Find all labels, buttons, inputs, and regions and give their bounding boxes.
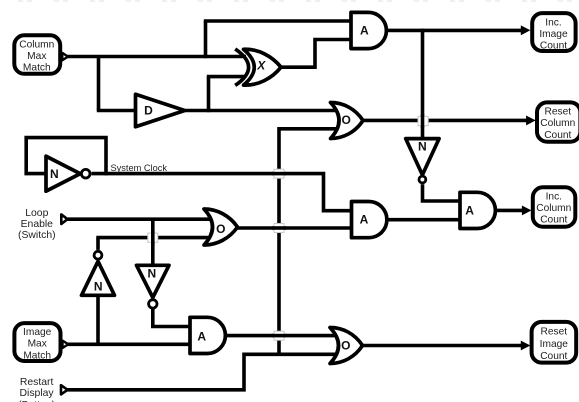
wire: XOR output with riser to AND1 bottom input	[280, 40, 353, 68]
wire: AND2 output to AND4 bottom input	[386, 218, 461, 222]
svg-text:Count: Count	[540, 215, 567, 226]
wire: branch up to XOR bottom input	[207, 77, 211, 113]
buffer D1	[136, 94, 185, 127]
page edge dashed guide	[0, 0, 579, 2]
wire: N1 bubble riser	[96, 238, 100, 250]
arrowhead into Reset Column Count	[527, 116, 535, 124]
wire: clock feedback loop	[26, 138, 106, 176]
svg-text:O: O	[341, 338, 350, 352]
svg-text:Image: Image	[540, 339, 569, 350]
wire: Loop Enable input to OR2 top input	[68, 217, 214, 221]
crossover marker M3 at (279,228) horizontal over	[272, 224, 286, 233]
svg-text:N: N	[418, 140, 427, 154]
wire: branch down from Loop Enable to inverter N2	[151, 219, 155, 267]
svg-text:Match: Match	[23, 63, 51, 74]
pin: Loop Enable input	[61, 214, 67, 224]
wire: top run to AND1 input	[204, 19, 353, 23]
arrowhead into Inc Image Count	[521, 26, 529, 34]
wire: OR3 output to Reset Image Count	[362, 344, 523, 348]
svg-text:A: A	[465, 204, 474, 218]
or gate O2	[204, 209, 238, 245]
node: Inc. Image Count	[521, 13, 575, 52]
svg-text:A: A	[360, 23, 369, 37]
wire: D buffer input	[97, 109, 135, 113]
node: Reset Image Count	[521, 322, 576, 363]
svg-text:Image: Image	[23, 327, 52, 338]
wire: system clock run to AND2 top input	[92, 174, 354, 211]
svg-text:Column: Column	[540, 118, 575, 129]
or gate O3	[330, 328, 363, 364]
svg-text:N: N	[147, 267, 156, 281]
crossover marker M4 at (279,336) horizontal over	[272, 331, 286, 340]
wire: branch up from Column Max net	[204, 21, 208, 58]
wire: AND1 output to Inc Image Count	[386, 29, 522, 33]
wire: AND3 output to OR3 top input	[225, 334, 339, 338]
svg-text:Inc.: Inc.	[545, 18, 561, 29]
svg-text:Loop: Loop	[25, 208, 48, 219]
svg-text:Match: Match	[23, 350, 51, 361]
crossover marker M1 at (423,121) vertical over	[418, 115, 428, 128]
svg-text:System Clock: System Clock	[111, 163, 168, 174]
and gate A3	[190, 317, 225, 353]
arrowhead into Reset Image Count	[521, 341, 529, 349]
svg-text:N: N	[94, 280, 103, 294]
svg-text:Enable: Enable	[21, 219, 54, 230]
wire: Image Max Match output to AND3 bottom input	[68, 342, 191, 346]
svg-text:A: A	[197, 329, 206, 343]
svg-text:Count: Count	[540, 41, 567, 52]
crossover marker M2 at (279,173) horizontal over	[272, 169, 286, 178]
wire: Column Max Match output to XOR top input	[68, 55, 247, 59]
wire: branch down to D buffer input	[97, 57, 101, 111]
svg-text:(Switch): (Switch)	[18, 230, 56, 241]
and gate A4	[460, 192, 495, 228]
pin: Restart Display input	[61, 385, 68, 394]
wire: Restart Display run to OR3 bottom input	[68, 354, 340, 390]
and gate A1	[351, 12, 386, 48]
label: Restart Display	[18, 377, 67, 402]
crossover marker M5 at (152.8,237.6) vertical over	[148, 231, 158, 245]
xor gate X1	[235, 49, 281, 85]
svg-text:Count: Count	[540, 351, 567, 362]
svg-text:Column: Column	[19, 39, 54, 50]
inverter N3	[406, 139, 439, 183]
svg-text:O: O	[342, 113, 351, 127]
label: Loop Enable (Switch)	[18, 208, 67, 241]
svg-text:Reset: Reset	[544, 107, 571, 118]
node: Inc. Column Count	[522, 187, 575, 226]
wire: long vertical from OR1 bottom input down to Restart net	[279, 129, 339, 354]
inverter N1	[82, 251, 115, 295]
svg-text:N: N	[50, 167, 59, 181]
svg-text:Image: Image	[539, 29, 568, 40]
svg-text:Inc.: Inc.	[546, 192, 562, 203]
or gate O1	[331, 103, 364, 139]
node: Reset Column Count	[527, 102, 579, 141]
svg-text:A: A	[360, 212, 369, 226]
wire: N1 output horizontal to OR2 bottom input	[96, 236, 213, 240]
and gate A2	[352, 202, 387, 238]
wire: D output to OR1 top input	[184, 109, 340, 113]
inverter N2	[137, 265, 170, 308]
wire: N1 input vertical from Image Max net	[96, 296, 100, 344]
wire: OR1 output to Reset Column Count	[362, 119, 527, 123]
svg-text:Reset: Reset	[540, 327, 567, 338]
pin: Column Max output	[62, 53, 68, 60]
svg-text:Max: Max	[28, 339, 47, 350]
clock inverter N0	[46, 156, 90, 191]
wire: N3 bubble to AND4 top input	[423, 184, 461, 201]
pin: Image Max output	[63, 341, 69, 348]
wire: XOR bottom input	[207, 75, 246, 79]
svg-text:Column: Column	[536, 203, 571, 214]
svg-text:Count: Count	[544, 130, 571, 141]
arrowhead into Inc Column Count	[522, 206, 530, 214]
svg-text:Display: Display	[20, 388, 55, 399]
wire: vertical from AND1 output down to inverter N3	[421, 29, 425, 139]
svg-text:D: D	[144, 103, 153, 117]
svg-text:Restart: Restart	[20, 377, 54, 388]
node: Column Max Match	[14, 35, 68, 74]
wire: AND4 output to Inc Column Count	[495, 209, 524, 213]
wire: N2 bubble to AND3 top input	[153, 309, 191, 327]
node: Image Max Match	[14, 323, 68, 361]
wire: OR2 output to AND2 bottom input	[237, 226, 353, 230]
svg-text:O: O	[216, 222, 225, 236]
svg-text:X: X	[256, 59, 266, 73]
svg-text:Max: Max	[27, 51, 46, 62]
